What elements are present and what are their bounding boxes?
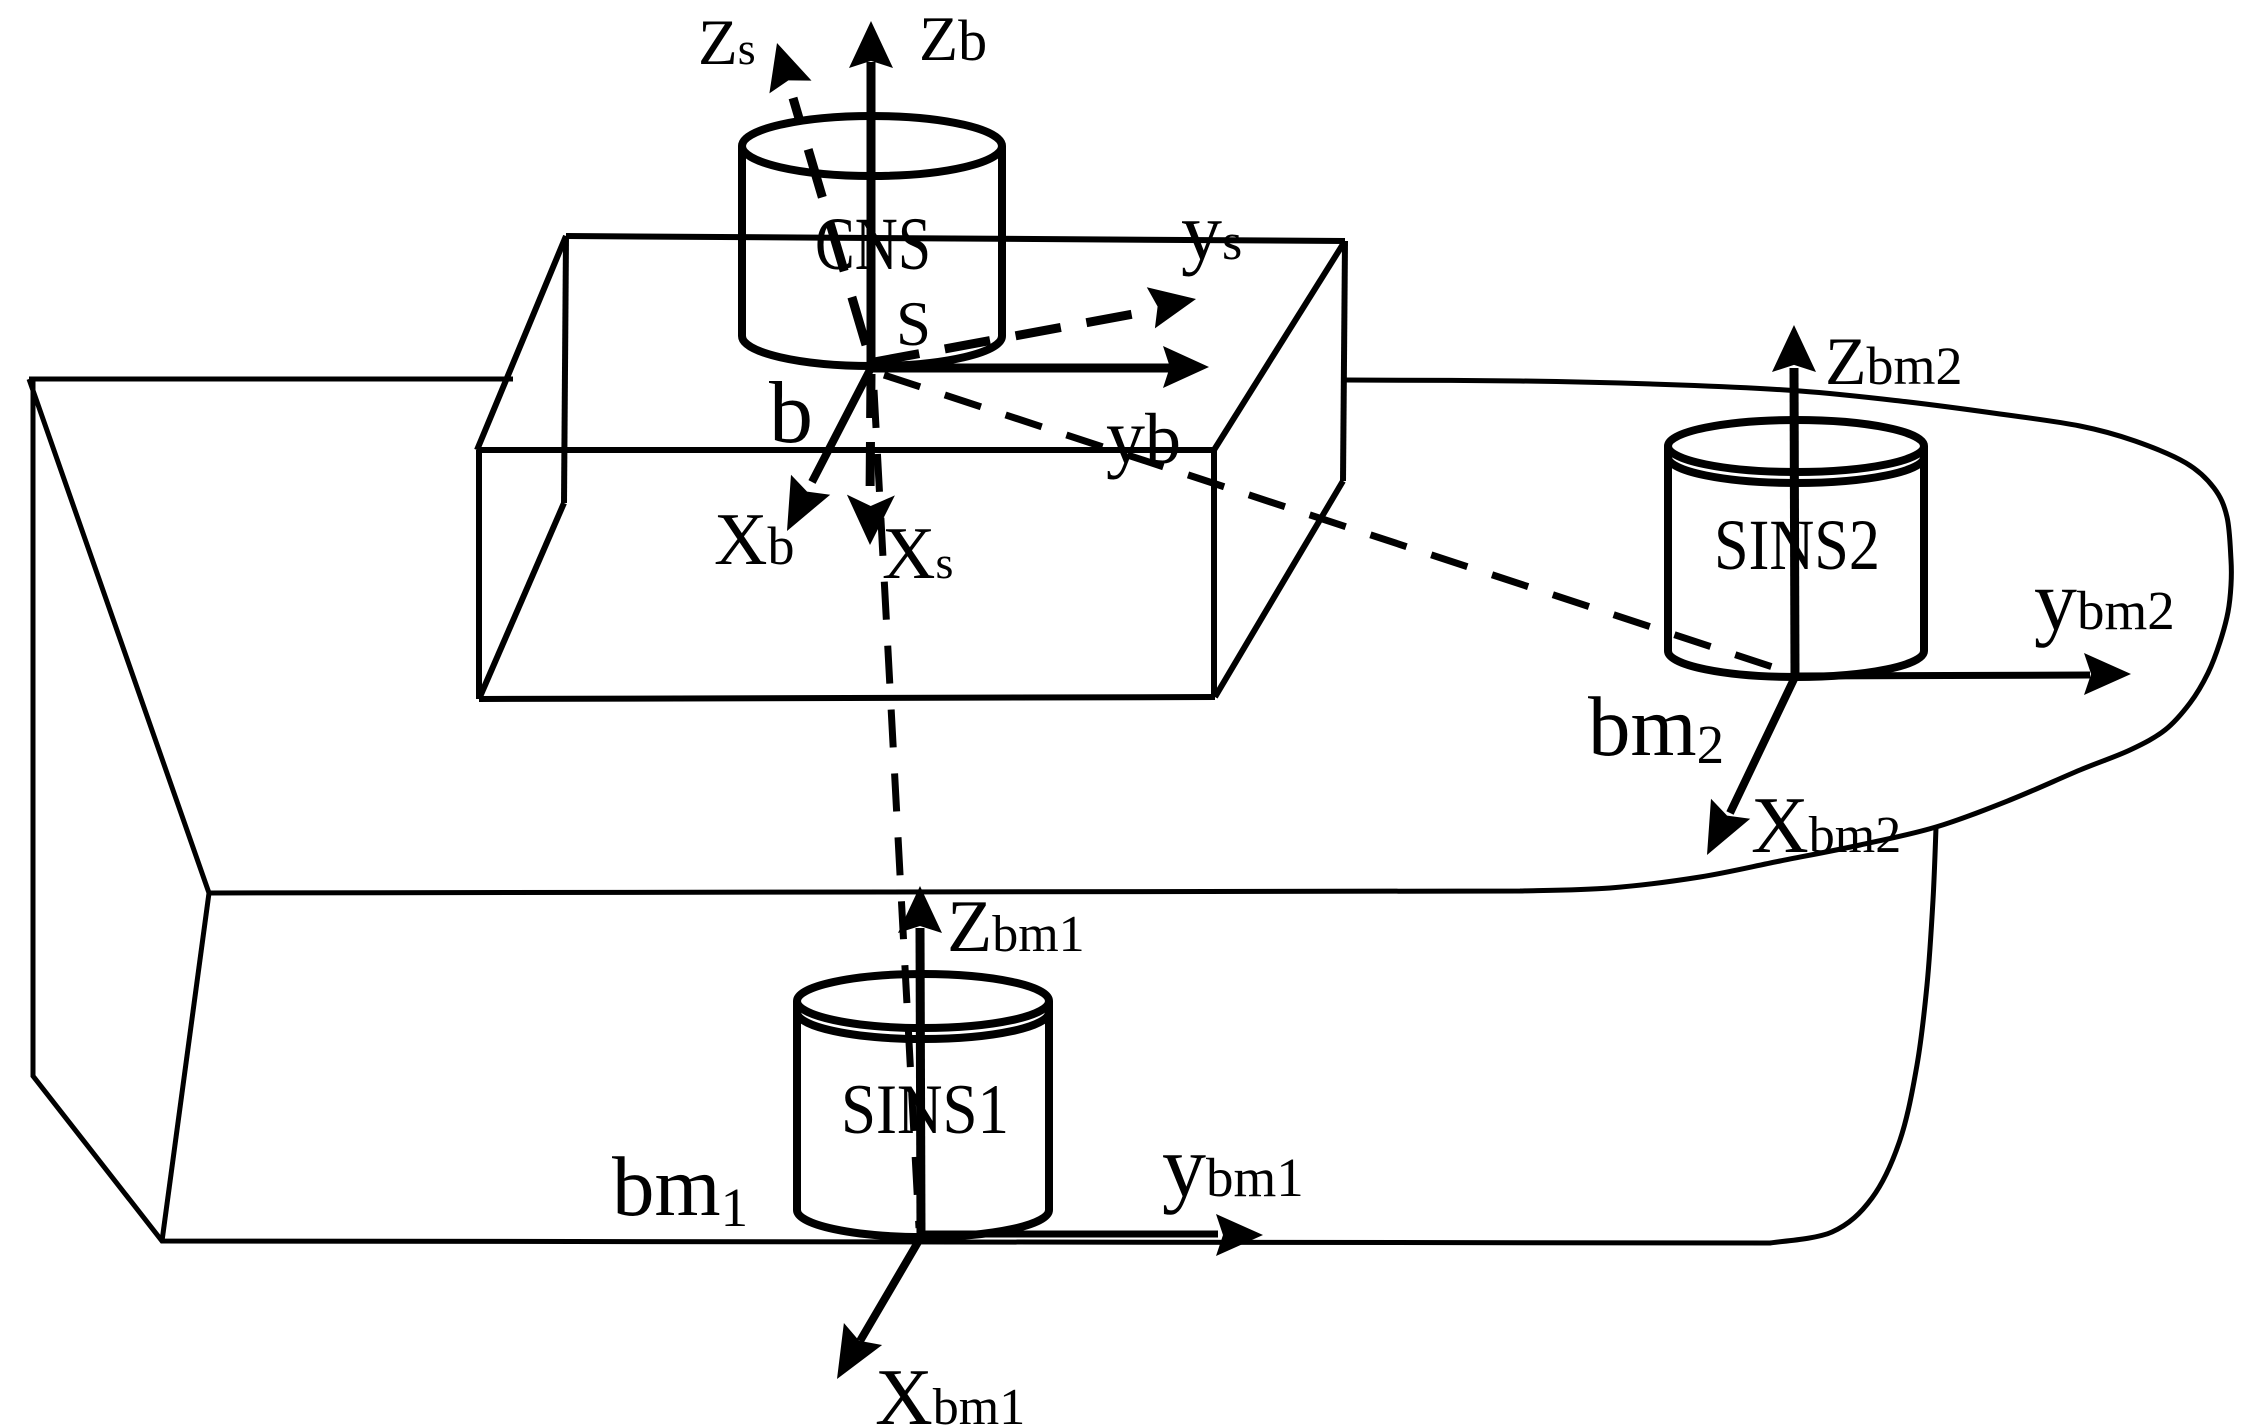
lever-arm dashed line S to SINS1 <box>874 390 919 1228</box>
SINS2 cylinder <box>1668 420 1924 677</box>
axis Xb (solid down-left from S) <box>812 366 872 482</box>
svg-text:b: b <box>769 365 813 462</box>
svg-text:CNS: CNS <box>815 203 931 286</box>
svg-text:SINS1: SINS1 <box>841 1071 1009 1149</box>
svg-text:SINS2: SINS2 <box>1714 505 1880 585</box>
axis ys (dashed up-right from S) <box>874 310 1155 362</box>
axis ybm2 (solid right from SINS2 origin) <box>1795 675 2090 676</box>
axis Xbm1 (solid down-left from SINS1 origin) <box>860 1237 921 1341</box>
ship hull side <box>33 379 1936 1243</box>
axis Zs (dashed up-left from S) <box>793 98 866 345</box>
axis Zbm1 (solid vertical up from SINS1 origin) <box>920 928 921 1237</box>
svg-text:Zb: Zb <box>919 3 987 74</box>
svg-text:S: S <box>896 289 931 359</box>
hull knuckle edge <box>162 893 209 1241</box>
lever-arm dashed line S to SINS2 <box>884 375 1788 672</box>
CNS star sensor cylinder <box>742 116 1002 366</box>
axis yb (solid horizontal right from S) <box>872 364 1170 373</box>
axis Xbm2 (solid down-left from SINS2 origin) <box>1730 677 1795 813</box>
svg-text:yb: yb <box>1106 393 1181 480</box>
deckhouse box <box>477 236 1345 699</box>
axis Xs (dashed down from S) <box>870 374 871 500</box>
axis Zbm2 (solid vertical up from SINS2 origin) <box>1794 368 1795 677</box>
axis ybm1 (solid right from SINS1 origin) <box>921 1231 1218 1238</box>
axis Zb (solid vertical up from S) <box>867 62 876 370</box>
ship deck outline: far edge left segment <box>29 377 513 382</box>
SINS1 cylinder <box>797 974 1049 1237</box>
ship deck outline: bow curve and near edge <box>29 379 2231 893</box>
